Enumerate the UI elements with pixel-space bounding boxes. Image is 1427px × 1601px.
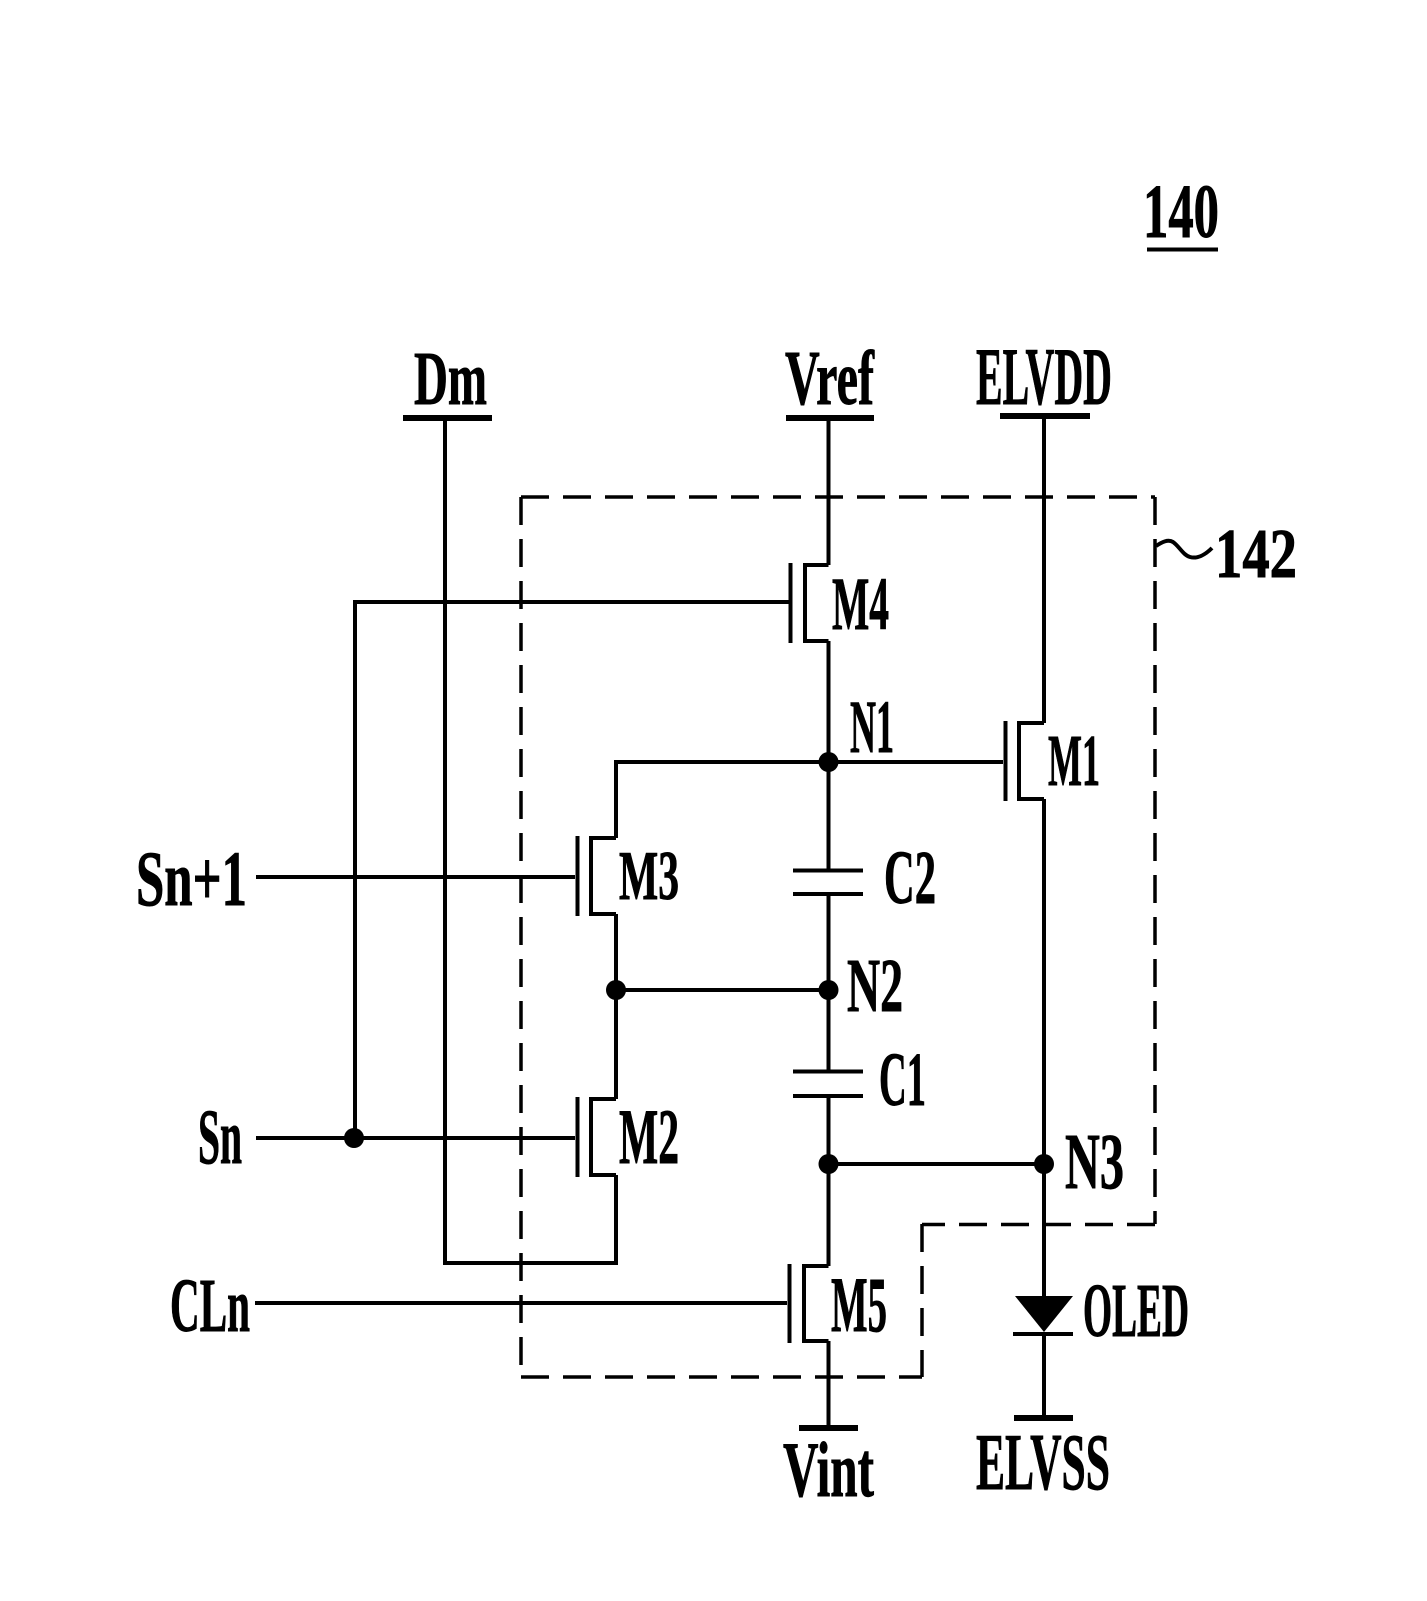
svg-text:Sn: Sn <box>198 1093 242 1180</box>
svg-text:Vref: Vref <box>785 335 875 421</box>
svg-text:M3: M3 <box>619 838 679 915</box>
svg-text:N2: N2 <box>847 944 903 1028</box>
svg-text:C2: C2 <box>884 836 936 920</box>
svg-text:M4: M4 <box>832 563 889 646</box>
svg-text:M1: M1 <box>1048 720 1100 801</box>
svg-text:ELVSS: ELVSS <box>976 1417 1110 1507</box>
svg-text:142: 142 <box>1215 516 1297 593</box>
svg-text:CLn: CLn <box>170 1264 250 1348</box>
svg-text:Sn+1: Sn+1 <box>136 835 247 922</box>
svg-text:N3: N3 <box>1065 1119 1124 1206</box>
svg-text:ELVDD: ELVDD <box>976 331 1112 422</box>
svg-text:C1: C1 <box>879 1038 926 1122</box>
svg-text:M5: M5 <box>831 1261 887 1348</box>
svg-text:Vint: Vint <box>783 1426 874 1513</box>
svg-text:M2: M2 <box>619 1093 679 1180</box>
svg-text:140: 140 <box>1143 170 1219 254</box>
svg-text:N1: N1 <box>850 686 894 769</box>
svg-text:OLED: OLED <box>1083 1269 1189 1353</box>
svg-text:Dm: Dm <box>414 337 487 421</box>
